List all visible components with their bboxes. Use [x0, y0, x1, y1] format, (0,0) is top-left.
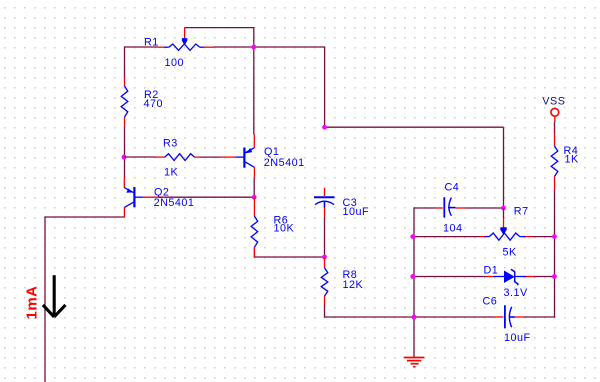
svg-text:1mA: 1mA: [24, 285, 41, 319]
svg-text:D1: D1: [484, 265, 499, 277]
wire: Q2 collector corner left: [45, 216, 124, 218]
node G junction (C4/wiper): [501, 206, 506, 211]
wire: left rail vertical top (R1 to R2): [124, 46, 126, 77]
wire: node A to top-right corner: [254, 46, 325, 48]
svg-text:R1: R1: [144, 37, 159, 49]
wire: node B horizontal right: [325, 126, 504, 128]
node A junction: [251, 45, 256, 50]
wire: D1 right wire: [533, 276, 555, 278]
svg-text:5K: 5K: [503, 247, 518, 259]
svg-text:C4: C4: [445, 182, 460, 194]
transistor Q1 2N5401: [236, 156, 244, 158]
resistor R2: [124, 77, 126, 86]
wire: R7 left wire: [413, 236, 480, 238]
svg-text:470: 470: [144, 98, 164, 110]
wire: Q1 collector down to node C: [253, 177, 255, 197]
transistor Q2 2N5401: [133, 187, 135, 207]
svg-text:2N5401: 2N5401: [264, 157, 305, 169]
svg-text:C6: C6: [483, 296, 498, 308]
Q2 collector: [124, 202, 134, 208]
wire: R1 right to node A: [214, 46, 255, 48]
resistor R3: [155, 156, 165, 158]
Q1 collector: [245, 162, 255, 168]
R1 wiper arrow: [184, 28, 186, 39]
wire: R1 wiper bypass right vertical: [253, 28, 255, 47]
node J junction (D1 left): [410, 274, 415, 279]
capacitor C3 10uF: [324, 188, 326, 196]
wire: ground stem: [413, 317, 415, 357]
wire: node F to R3: [124, 156, 156, 158]
wire: VSS rail top: [554, 122, 556, 133]
node C junction: [252, 195, 257, 200]
current annotation arrow 1mA: [43, 275, 66, 317]
svg-text:R3: R3: [163, 138, 178, 150]
wire: C4 right to wiper node: [467, 207, 504, 209]
wire: R6 bottom corner: [253, 247, 255, 257]
wire: R7 right wire: [532, 236, 555, 238]
wire: vertical x=325 down to node B: [324, 47, 326, 127]
wire: left rail R2 bottom to node D: [124, 126, 126, 178]
wire: R4 bottom rail down: [554, 190, 556, 277]
resistor R8: [324, 257, 326, 268]
ground symbol: [404, 357, 425, 359]
svg-text:R7: R7: [514, 206, 529, 218]
R7 wiper arrow: [503, 208, 505, 218]
svg-text:100: 100: [165, 57, 185, 69]
wire: C4 left corner vertical: [413, 207, 415, 317]
wire: vertical x=503 down to C4 node: [503, 127, 505, 208]
node F junction (left rail / R3): [122, 155, 127, 160]
svg-text:VSS: VSS: [542, 96, 565, 108]
wire: D1 left wire: [413, 276, 487, 278]
svg-text:104: 104: [443, 223, 463, 235]
svg-text:3.1V: 3.1V: [504, 287, 529, 299]
wire: R1 left to left rail corner: [125, 46, 159, 48]
diode D1 3.1V: [487, 276, 494, 278]
wire: bottom rail to C6: [414, 316, 495, 318]
node I junction (R7 right): [552, 234, 557, 239]
node K junction (D1 right): [552, 274, 557, 279]
Q1 emitter arrow: [246, 148, 253, 153]
node H junction (R7 left): [410, 234, 415, 239]
svg-text:12K: 12K: [343, 279, 364, 291]
svg-text:10uF: 10uF: [504, 332, 531, 344]
resistor R1 (potentiometer): [158, 46, 164, 48]
capacitor C6 10uF: [495, 316, 504, 318]
svg-text:1K: 1K: [164, 167, 179, 179]
transistor Q1 base pin: [221, 156, 236, 158]
wire: node A down to Q1 emitter: [253, 47, 255, 135]
svg-text:2N5401: 2N5401: [154, 197, 195, 209]
node B junction: [322, 125, 327, 130]
wire: R1 wiper bypass top horizontal: [185, 27, 255, 29]
wire: Q2 base to node C: [161, 196, 254, 198]
svg-text:1K: 1K: [565, 154, 580, 166]
resistor R6: [253, 197, 255, 216]
resistor R4: [554, 133, 556, 147]
capacitor C4 104: [435, 207, 443, 209]
svg-text:10uF: 10uF: [343, 206, 370, 218]
node E junction (R6/C3/R8): [322, 255, 327, 260]
wire: C3 bottom to node E: [324, 217, 326, 257]
Q2 emitter arrow: [126, 188, 133, 192]
wire: R8 bottom corner to bottom rail: [324, 306, 326, 317]
wire: R3 right to Q1 base pin: [195, 156, 201, 158]
wire: C6 right corner: [524, 316, 555, 318]
wire: 1mA branch vertical: [44, 216, 46, 382]
Q2 emitter: [123, 178, 125, 188]
node L junction (bottom rail / ground): [412, 315, 417, 320]
resistor R7 (potentiometer 5K): [480, 236, 485, 238]
svg-text:10K: 10K: [274, 223, 295, 235]
